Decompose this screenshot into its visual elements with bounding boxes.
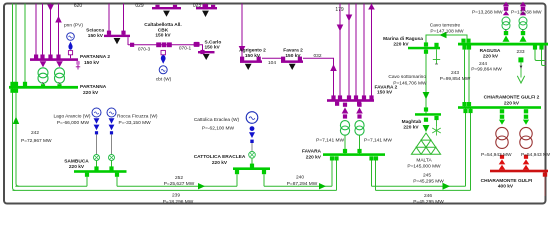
wire line 246 riser at FAVARA (375, 161, 377, 191)
svg-text:Cattolica Eraclea (W): Cattolica Eraclea (W) (194, 117, 240, 123)
bus AGRIGENTO 2 150 kV (240, 60, 262, 63)
node cluster 070 junction (156, 42, 161, 47)
bus SAMBUCA 220 kV (74, 170, 127, 173)
transformer CHIARAMONTE T1 down arrow (499, 120, 505, 125)
wire line 104 (262, 57, 281, 59)
wire line 240 riser at CATTOLICA (263, 174, 265, 186)
svg-text:P=45,295 MW: P=45,295 MW (413, 199, 444, 205)
node squares on SAMBUCA bus (85, 166, 119, 176)
wire purple vertical from top to PARTANNA 2 (58, 4, 60, 60)
transformer CHIARAMONTE T1 circles 400/220 (496, 127, 508, 139)
transformer CHIARAMONTE T2 circles 400/220 (520, 127, 532, 139)
wire line 252 riser at SAMBUCA (86, 177, 88, 187)
node squares on Marina di Ragusa bus (424, 42, 428, 46)
svg-text:220 kV: 220 kV (403, 124, 419, 130)
transformer CHIARAMONTE T2 red arrows (523, 159, 530, 164)
transformer CHIARAMONTE T2 squares under 220 bus (524, 109, 528, 113)
svg-text:150 kV: 150 kV (155, 33, 171, 39)
bus FAVARA 220 kV (323, 153, 385, 156)
node squares on RAGUSA bus left end (461, 39, 471, 50)
svg-text:CHIARAMONTE GULFI 2: CHIARAMONTE GULFI 2 (484, 95, 540, 101)
wire purple vertical bundle to FAVARA 2 bus (348, 4, 350, 100)
transformer T1 PARTANNA feed arrow (40, 61, 47, 67)
transformer TR2 FAVARA 150/220 (355, 121, 364, 130)
svg-text:CHIARAMONTE GULFI: CHIARAMONTE GULFI (481, 178, 533, 184)
svg-text:023: 023 (193, 3, 202, 9)
generator pnn converter (blue drop) (68, 42, 72, 50)
svg-text:070-3: 070-3 (138, 47, 151, 53)
svg-text:Favara 2: Favara 2 (283, 48, 303, 54)
bus CHIARAMONTE GULFI 2 220 kV (458, 106, 541, 109)
svg-text:CATTOLICA ERACLEA: CATTOLICA ERACLEA (194, 154, 246, 160)
wire purple vertical from top to PARTANNA 2 (35, 4, 37, 60)
svg-text:243: 243 (451, 70, 459, 76)
bus CHIARAMONTE GULFI 400 kV (490, 170, 548, 173)
svg-text:P=7,141 MW: P=7,141 MW (316, 138, 344, 144)
wire line 245 horizontal Favara-Chiaramonte (372, 185, 466, 187)
svg-text:150 kV: 150 kV (377, 90, 393, 96)
transformer TR1 FAVARA feed arrow up (342, 107, 349, 113)
svg-text:P=99,864 MW: P=99,864 MW (471, 66, 502, 72)
transformer RAGUSA T1 second arrow (503, 11, 509, 15)
bus CALTABELLOTTA segment 023 (196, 7, 217, 9)
transformer CHIARAMONTE T2 down arrow (523, 120, 529, 125)
transformer TR2 FAVARA feed square (357, 103, 361, 107)
svg-text:P=-66,000 MW: P=-66,000 MW (57, 120, 90, 126)
arrow down on purple feeder (47, 5, 54, 12)
load arrow S.Carlo (203, 54, 210, 60)
wire purple vertical from top to PARTANNA 2 (50, 4, 52, 60)
svg-text:Cavo sottomarino: Cavo sottomarino (388, 74, 426, 80)
svg-text:CBK: CBK (158, 27, 169, 33)
svg-text:220 kV: 220 kV (83, 90, 99, 96)
svg-text:MALTA: MALTA (416, 157, 432, 163)
node square on S.Carlo bus (200, 50, 204, 54)
arrow right on line 245 (443, 183, 451, 190)
svg-text:400 kV: 400 kV (498, 184, 514, 190)
wire pnn to bus (70, 55, 72, 59)
breaker open square under pnn (68, 51, 72, 55)
svg-text:242: 242 (31, 130, 39, 136)
svg-text:252: 252 (175, 175, 183, 181)
bus FAVARA 2 150 kV (327, 99, 374, 102)
wire line 245 riser to CHIARAMONTE GULFI 2 (465, 109, 467, 187)
wire purple vertical bundle to FAVARA 2 bus (339, 4, 341, 100)
wire green vertical from top to PARTANNA 220 (24, 4, 26, 88)
wire line 239 riser at FAVARA (336, 161, 338, 191)
svg-text:240: 240 (296, 175, 304, 181)
svg-text:150 kV: 150 kV (84, 60, 100, 66)
svg-text:Cavo terrestre: Cavo terrestre (430, 23, 461, 29)
wire Ragusa right exits (nested L bends) (535, 46, 546, 61)
generator cbt machine circle (159, 66, 167, 74)
bus MARINA DI RAGUSA 220 kV (408, 47, 440, 50)
node squares under FAVARA 220 bus (330, 156, 378, 160)
svg-text:P=72,967 MW: P=72,967 MW (21, 138, 52, 144)
load arrow SCIACCA (114, 38, 121, 44)
wire TR2 to FAVARA 220 (359, 135, 361, 153)
node squares on CHIARAMONTE GULFI 2 bus (462, 102, 472, 113)
svg-text:150 kV: 150 kV (245, 53, 261, 59)
svg-text:032: 032 (313, 53, 321, 59)
svg-text:Caltabellotta All.: Caltabellotta All. (144, 22, 181, 28)
wire purple vertical bundle to FAVARA 2 bus (355, 4, 357, 100)
svg-text:P=13,268 MW: P=13,268 MW (472, 10, 503, 16)
wire line 239 horizontal Partanna-Favara (13, 189, 337, 191)
arrow down on Agrigento feeder (239, 46, 246, 53)
arrow up on bundle line 5 (368, 4, 375, 10)
svg-text:P=146,706 MW: P=146,706 MW (393, 80, 427, 86)
svg-text:P=145,000 MW: P=145,000 MW (407, 163, 441, 169)
svg-text:104: 104 (268, 60, 276, 66)
svg-text:S.Carlo: S.Carlo (205, 40, 222, 46)
load arrow Agrigento 2 (245, 64, 252, 70)
svg-text:239: 239 (172, 193, 180, 199)
arrow right on line 240 (319, 183, 326, 189)
svg-text:246: 246 (424, 193, 432, 199)
wire purple vertical from top to AGRIGENTO 2 (241, 4, 243, 62)
svg-text:P=87,294 MW: P=87,294 MW (287, 181, 318, 187)
generator cbt converter (blue drop) (161, 55, 166, 64)
svg-text:PARTANNA: PARTANNA (80, 84, 107, 90)
svg-text:P=54,943 MW: P=54,943 MW (521, 152, 550, 158)
transformer CHIARAMONTE T1 squares under 220 bus (500, 109, 504, 113)
load arrow on segment 029 (163, 11, 170, 17)
wire purple vertical from top to SCIACCA (108, 4, 110, 36)
arrow down on bundle line 2 (346, 15, 353, 22)
tick marks under transformers (42, 82, 61, 84)
svg-text:PARTANNA 2: PARTANNA 2 (80, 54, 110, 60)
shunt asterisk at Maghtab (436, 120, 438, 126)
breaker circle Rocca Ficuzza (109, 155, 115, 161)
transformer CHIARAMONTE T1 red arrows (499, 159, 506, 164)
transformer RAGUSA T1 top arrow (503, 2, 509, 7)
svg-text:220 kV: 220 kV (393, 41, 409, 47)
svg-text:Agrigento 2: Agrigento 2 (239, 48, 266, 54)
generator Cattolica Eraclea machine circle (246, 112, 258, 124)
svg-text:pnn (PV): pnn (PV) (64, 23, 83, 29)
node square line 070 to S.Carlo (194, 42, 200, 47)
svg-text:Marina di Ragusa: Marina di Ragusa (383, 36, 423, 42)
wire purple vertical from top to PARTANNA 2 (42, 4, 44, 60)
wire purple vertical bundle to FAVARA 2 bus (363, 4, 365, 100)
node squares on FAVARA 2 bus (331, 95, 373, 105)
transformer RAGUSA T2 top square (521, 7, 525, 11)
wire line 242 horizontal Partanna-Sambuca (15, 185, 87, 187)
transformer RAGUSA T1 top square (504, 7, 508, 11)
wire green vertical feeder into PARTANNA 220 (line 242 riser) (16, 4, 19, 187)
svg-text:220 kV: 220 kV (483, 53, 499, 59)
wire line 252 horizontal Sambuca-Cattolica (117, 185, 237, 187)
bus PARTANNA 2 150 kV (30, 58, 78, 61)
bus FAVARA 2 (upper) 150 kV (281, 60, 303, 63)
bus CATTOLICA ERACLEA 220 kV (233, 167, 270, 170)
wire line 240 riser at FAVARA (331, 161, 333, 187)
stub disconnector under Marina di Ragusa bus (436, 49, 438, 64)
svg-text:220 kV: 220 kV (306, 154, 322, 160)
svg-text:P=54,943 MW: P=54,943 MW (481, 152, 512, 158)
svg-text:P=13,268 MW: P=13,268 MW (511, 10, 542, 16)
node square on line 070 left (130, 43, 134, 47)
wire Cavo terrestre Ragusa - Marina di Ragusa (426, 35, 467, 47)
transformer RAGUSA T2 top arrow (520, 2, 526, 7)
transformer T2 PARTANNA feed arrow (56, 61, 63, 67)
bus RAGUSA 220 kV (458, 43, 548, 46)
svg-text:P=99,854 MW: P=99,854 MW (440, 76, 471, 82)
wire line 246 riser to CHIARAMONTE GULFI 2 (470, 109, 472, 191)
node squares on PARTANNA 220 bus (10, 82, 61, 93)
wire line 240 horizontal Cattolica-Favara (264, 185, 332, 187)
transformer T1 PARTANNA 150/220 (38, 68, 48, 78)
svg-text:150 kV: 150 kV (285, 53, 301, 59)
svg-text:244: 244 (479, 61, 487, 67)
node squares on SCIACCA bus (107, 31, 111, 35)
stub at CHIARAMONTE 400 right end (543, 173, 547, 177)
wire purple vertical bundle to FAVARA 2 bus (371, 4, 373, 100)
load arrow Favara 2 (289, 64, 296, 70)
generator Cattolica Eraclea converter chain (250, 126, 255, 131)
svg-text:P=25,627 MW: P=25,627 MW (164, 181, 195, 187)
breaker circle Cattolica Eraclea (249, 152, 256, 159)
svg-text:179: 179 (335, 7, 344, 13)
svg-text:220 kV: 220 kV (504, 101, 520, 107)
svg-text:245: 245 (423, 173, 431, 179)
transformer RAGUSA T2 lower square and arrow (522, 30, 524, 32)
svg-text:Maghtab: Maghtab (402, 119, 422, 125)
arrow down on Cavo sottomarino (423, 92, 430, 99)
wire purple vertical from top to SCIACCA (123, 4, 125, 36)
load arrow on segment 023 (202, 11, 209, 17)
svg-text:620: 620 (74, 3, 83, 9)
node squares on PARTANNA 2 bus (34, 55, 61, 59)
svg-text:150 kV: 150 kV (205, 45, 221, 51)
transformer T2 PARTANNA 150/220 (55, 68, 65, 78)
wire line 252 riser at CATTOLICA (236, 174, 238, 186)
generator Rocca Ficuzza machine circle (107, 108, 116, 117)
svg-text:P=45,295 MW: P=45,295 MW (413, 179, 444, 185)
wire 070 to S.Carlo bus (200, 45, 203, 52)
wire line 032 (303, 58, 334, 99)
arrow right on line 252 (198, 183, 205, 189)
wire green vertical feeder into PARTANNA 220 (line 239 riser) (13, 4, 16, 191)
stub with disconnector at PARTANNA 2 right end (77, 61, 79, 70)
transformer TR1 FAVARA 150/220 (340, 121, 349, 130)
svg-text:cbt (W): cbt (W) (156, 77, 172, 83)
generator Rocca Ficuzza converter chain (109, 118, 115, 124)
arrow down Maghtab to MALTA load (423, 125, 430, 132)
transformer TR1 FAVARA feed square lower (343, 114, 347, 118)
breaker open square under 070 junction (161, 50, 165, 54)
wire Cavo sottomarino Marina di Ragusa - Maghtab (425, 49, 427, 114)
bus SCIACCA 150 kV (104, 35, 130, 37)
transformer RAGUSA T2 circles (519, 17, 527, 25)
svg-text:029: 029 (135, 3, 144, 9)
breaker circle Lago Arancio (94, 155, 100, 161)
node squares under CATTOLICA bus (235, 170, 239, 174)
svg-text:Rocca Ficuzza (W): Rocca Ficuzza (W) (117, 114, 158, 120)
transformer TR2 FAVARA feed arrow up (356, 107, 363, 113)
node squares on Maghtab bus (424, 107, 428, 111)
load MALTA equivalent network triangle (411, 133, 440, 154)
wire line 246 horizontal Favara-Chiaramonte (376, 189, 471, 191)
transformer RAGUSA T1 lower square and arrow (505, 30, 507, 32)
arrow down on bundle line 1 (337, 25, 344, 32)
svg-text:P=7,141 MW: P=7,141 MW (364, 138, 392, 144)
wire line 070 (128, 44, 196, 46)
wire TR1 to FAVARA 220 (344, 135, 346, 153)
bus CALTABELLOTTA segment 029 (152, 7, 181, 9)
svg-text:Sciacca: Sciacca (86, 28, 104, 34)
transformer TR2 FAVARA feed square lower (357, 114, 361, 118)
svg-text:P=147,108 MW: P=147,108 MW (430, 29, 464, 35)
generator pnn (PV) machine circle (67, 33, 75, 41)
svg-text:RAGUSA: RAGUSA (480, 48, 501, 54)
wire line 244 Ragusa-Chiaramonte2 (464, 50, 466, 107)
svg-text:P=-33,150 MW: P=-33,150 MW (119, 120, 152, 126)
svg-text:Lago Arancio (W): Lago Arancio (W) (53, 114, 90, 120)
svg-text:150 kV: 150 kV (88, 33, 104, 39)
wire SCIACCA down to line 070 (127, 37, 129, 45)
svg-text:220 kV: 220 kV (212, 160, 228, 166)
generator Lago Arancio converter chain (94, 118, 100, 124)
bus PARTANNA 220 kV (9, 86, 78, 89)
wire line 252 riser 2 at SAMBUCA (116, 177, 118, 187)
svg-text:P=18,296 MW: P=18,296 MW (163, 199, 194, 205)
arrow up on line 242 riser (13, 117, 19, 125)
transformer TR1 FAVARA feed square (343, 103, 347, 107)
bus MAGHTAB 220 kV (415, 113, 441, 116)
bus S.CARLO 150 kV (198, 51, 215, 53)
svg-text:070-1: 070-1 (179, 46, 192, 52)
svg-text:SAMBUCA: SAMBUCA (64, 159, 89, 165)
svg-text:233: 233 (516, 49, 524, 55)
arrow left on Cavo terrestre (439, 32, 446, 39)
transformer RAGUSA T2 second arrow (520, 11, 526, 15)
svg-text:220 kV: 220 kV (69, 164, 85, 170)
arrow up on line 032 riser (330, 64, 337, 71)
wire line 245 riser at FAVARA (371, 161, 373, 187)
svg-text:P=-62,100 MW: P=-62,100 MW (202, 126, 235, 132)
generator Lago Arancio machine circle (92, 108, 101, 117)
transformer RAGUSA T1 circles (502, 17, 510, 25)
svg-text:FAVARA: FAVARA (302, 149, 322, 155)
wire line 243 Ragusa-Chiaramonte2 (468, 50, 470, 107)
arrow up on purple feeder (55, 16, 62, 23)
